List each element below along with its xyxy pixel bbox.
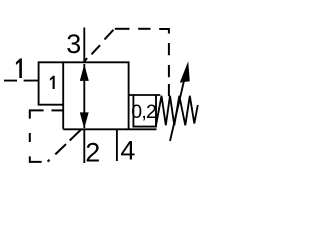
port 2 lead line	[83, 129, 85, 163]
left dashed pilot box: top edge	[30, 110, 44, 118]
right dashed vertical	[168, 43, 170, 55]
port 4 lead line	[116, 129, 118, 161]
orifice box top connector	[129, 94, 161, 96]
diagonal dashes to arrow junction	[48, 160, 50, 162]
port 3 lead line	[83, 28, 85, 63]
spring arrow head	[180, 61, 190, 82]
spring adjustment arrow shaft	[170, 73, 186, 141]
spring	[156, 96, 198, 126]
main flow double-arrow shaft	[83, 64, 85, 128]
orifice box 0,2	[133, 95, 156, 127]
pilot stage box 1 (left small box)	[39, 62, 64, 104]
pilot dashed line: top horizontal	[115, 28, 130, 30]
stage label 1	[50, 76, 55, 89]
bottom rail under main box and orifice box	[63, 128, 156, 130]
svg-text:4: 4	[120, 136, 135, 166]
port 1 lead line	[4, 80, 39, 82]
pilot dashed line: diagonal from port3 junction	[85, 58, 87, 61]
corner dash turning down	[159, 29, 169, 34]
svg-text:2: 2	[85, 138, 100, 168]
left dashed vertical	[29, 133, 31, 142]
svg-text:0,2: 0,2	[131, 101, 156, 123]
main valve body box	[63, 62, 128, 129]
down arrow head	[80, 112, 89, 128]
port label 1	[16, 59, 22, 79]
up arrow head	[80, 64, 89, 81]
svg-text:3: 3	[66, 29, 81, 59]
bottom corner	[30, 156, 42, 162]
